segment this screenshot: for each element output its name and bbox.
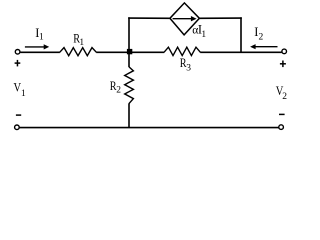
node A junction [127,49,132,54]
label R2 [110,79,122,96]
plus sign port2 [280,61,286,68]
terminal: port1 plus [15,50,20,55]
wire: source to right riser [199,17,242,19]
terminal: port2 plus [282,49,287,54]
svg-text:3: 3 [186,63,191,73]
wire: R1 to R3 through node A [96,51,164,53]
label alpha I1 [192,22,206,40]
label V2 [276,84,287,102]
resistor R2 [125,67,134,104]
label I1 [35,26,44,42]
dependent current source aI1 (diamond) [170,3,200,35]
current arrow I2 [250,44,277,49]
resistor R3 [164,47,200,55]
wire: right riser down to main rail [240,17,242,52]
wire: port1 plus to R1 [20,51,60,53]
label V1 [14,81,27,99]
svg-text:1: 1 [79,38,84,48]
label R3 [180,56,192,73]
minus sign port1 [16,114,21,116]
terminal: port2 minus [279,125,284,130]
wire: R3 to port2 plus [200,51,281,53]
wire: bottom rail [19,127,279,129]
resistor R1 [60,48,97,56]
svg-text:1: 1 [201,30,206,40]
arrow inside source [173,16,197,21]
svg-text:1: 1 [21,89,26,99]
plus sign port1 [15,60,21,67]
svg-text:2: 2 [282,92,287,102]
current arrow I1 [25,44,49,49]
terminal: port1 minus [15,125,20,130]
svg-text:1: 1 [39,33,44,43]
wire: node A down to R2 [128,52,130,67]
label R1 [73,32,84,48]
wire: node A riser up to loop [128,17,130,52]
svg-text:2: 2 [259,32,264,42]
wire: R2 to bottom rail [128,103,130,127]
minus sign port2 [279,113,285,115]
svg-text:2: 2 [116,86,121,96]
wire: loop top left to source [128,17,170,19]
svg-text:V: V [14,81,22,95]
label I2 [254,25,263,43]
